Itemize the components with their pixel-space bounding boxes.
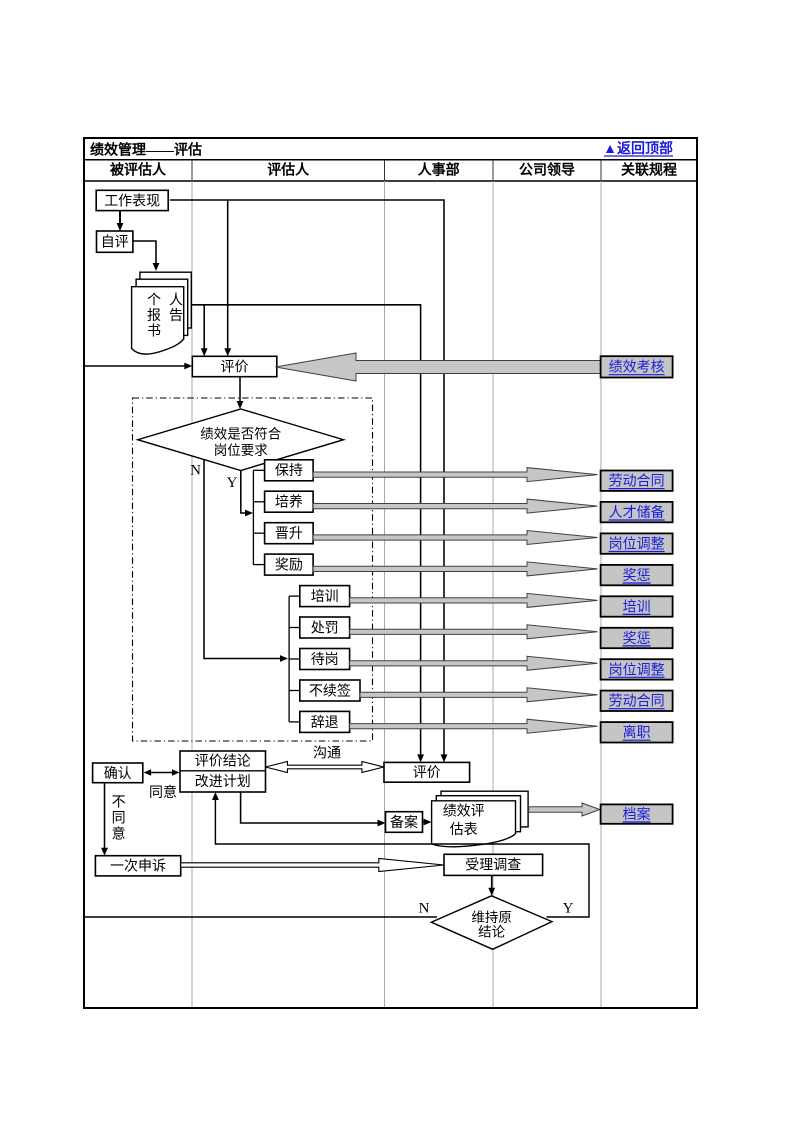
wire 工作表现→评价(人事部) bbox=[170, 200, 447, 762]
title 绩效管理——评估 bbox=[90, 142, 202, 159]
gray arrow row4→奖惩 bbox=[313, 562, 597, 576]
svg-text:同: 同 bbox=[112, 811, 126, 826]
svg-text:估表: 估表 bbox=[450, 822, 478, 838]
wire 确认→一次申诉 bbox=[101, 783, 108, 856]
link box 离职 (row9) bbox=[601, 722, 673, 742]
link 返回顶部 bbox=[603, 140, 673, 157]
hollow double arrow 评价结论↔评价 bbox=[265, 762, 384, 773]
process box 处罚 bbox=[300, 617, 350, 638]
process box 评价 (评估人) bbox=[192, 356, 276, 376]
title row bottom border bbox=[84, 159, 697, 161]
table outer border bbox=[84, 138, 697, 1008]
process box 确认 bbox=[93, 763, 143, 783]
svg-text:保持: 保持 bbox=[275, 463, 303, 479]
svg-text:培养: 培养 bbox=[275, 495, 303, 511]
svg-text:被评估人: 被评估人 bbox=[110, 162, 167, 179]
svg-text:同意: 同意 bbox=[149, 784, 177, 801]
link box 人才储备 (row2) bbox=[601, 502, 673, 522]
svg-text:报: 报 bbox=[147, 308, 161, 324]
svg-text:沟通: 沟通 bbox=[313, 746, 341, 762]
svg-text:辞退: 辞退 bbox=[311, 715, 339, 731]
double-headed arrow 确认↔评价结论 bbox=[144, 769, 180, 775]
svg-text:个: 个 bbox=[147, 292, 161, 308]
svg-text:奖励: 奖励 bbox=[275, 557, 303, 574]
label 同意 bbox=[149, 784, 177, 801]
gray arrow row6→奖惩 bbox=[350, 625, 598, 639]
process box 保持 bbox=[265, 460, 314, 481]
process box 培养 bbox=[265, 491, 314, 512]
gray arrow row2→人才储备 bbox=[313, 499, 597, 513]
process box 辞退 bbox=[300, 711, 350, 732]
decision diamond 绩效是否符合岗位要求 bbox=[138, 409, 344, 471]
svg-text:自评: 自评 bbox=[101, 235, 129, 251]
link box 岗位调整 (row7) bbox=[601, 659, 673, 679]
gray arrow 绩效评估表→档案 bbox=[529, 803, 600, 816]
svg-text:劳动合同: 劳动合同 bbox=[609, 474, 665, 490]
link box 劳动合同 (row8) bbox=[601, 691, 673, 711]
svg-text:备案: 备案 bbox=[390, 814, 418, 831]
link box 绩效考核 bbox=[601, 356, 673, 377]
svg-text:劳动合同: 劳动合同 bbox=[609, 694, 665, 710]
column header 评估人 bbox=[267, 162, 310, 179]
svg-text:人才储备: 人才储备 bbox=[609, 504, 665, 521]
svg-text:岗位调整: 岗位调整 bbox=[609, 537, 665, 553]
svg-text:不续签: 不续签 bbox=[309, 682, 351, 699]
gray arrow row3→岗位调整 bbox=[313, 531, 597, 545]
document stack 个人报告书 bbox=[132, 272, 192, 354]
svg-text:人: 人 bbox=[169, 292, 183, 308]
svg-text:岗位要求: 岗位要求 bbox=[214, 443, 268, 458]
decision diamond 维持原结论 bbox=[431, 896, 552, 950]
svg-text:▲返回顶部: ▲返回顶部 bbox=[603, 140, 673, 157]
label Y bbox=[227, 475, 238, 491]
column header 关联规程 bbox=[621, 162, 677, 179]
svg-text:档案: 档案 bbox=[623, 806, 651, 823]
link box 档案 bbox=[601, 804, 673, 823]
svg-text:改进计划: 改进计划 bbox=[195, 774, 251, 790]
column header 人事部 bbox=[418, 162, 460, 179]
process box 受理调查 bbox=[444, 854, 543, 875]
svg-text:确认: 确认 bbox=[104, 766, 132, 782]
svg-text:绩效评: 绩效评 bbox=[443, 804, 485, 820]
label 不同意 (vertical) bbox=[112, 795, 126, 842]
svg-text:受理调查: 受理调查 bbox=[465, 858, 521, 874]
link box 劳动合同 (row1) bbox=[601, 471, 673, 491]
header row bottom border bbox=[84, 180, 697, 182]
process box 晋升 bbox=[265, 523, 314, 544]
svg-text:书: 书 bbox=[147, 324, 161, 340]
link box 奖惩 (row6) bbox=[601, 628, 673, 648]
svg-text:岗位调整: 岗位调整 bbox=[609, 662, 665, 678]
wire 受理调查→维持原结论 bbox=[488, 875, 495, 895]
process box 备案 bbox=[386, 812, 423, 833]
link box 奖惩 (row4) bbox=[601, 565, 673, 585]
bracket connector group2 bbox=[289, 596, 300, 722]
column header 公司领导 bbox=[519, 162, 575, 179]
process box 自评 bbox=[97, 231, 133, 252]
svg-text:培训: 培训 bbox=[623, 599, 651, 615]
wire 工作表现→自评 bbox=[117, 211, 124, 231]
process box 评价 (人事部) bbox=[384, 762, 470, 782]
label 沟通 bbox=[313, 746, 341, 762]
svg-text:处罚: 处罚 bbox=[311, 620, 339, 636]
hollow arrow 一次申诉→受理调查 bbox=[181, 859, 444, 872]
svg-text:绩效考核: 绩效考核 bbox=[609, 360, 665, 376]
svg-text:待岗: 待岗 bbox=[311, 652, 339, 668]
wire branch 工作表现→评价(评估人) bbox=[224, 200, 231, 356]
svg-text:一次申诉: 一次申诉 bbox=[110, 859, 166, 875]
swimlane column separators bbox=[192, 181, 601, 1007]
column header 被评估人 bbox=[110, 162, 167, 179]
link box 岗位调整 (row3) bbox=[601, 533, 673, 553]
svg-text:评估人: 评估人 bbox=[267, 162, 310, 179]
link box 培训 (row5) bbox=[601, 596, 673, 616]
dash-dot boundary box bbox=[133, 398, 373, 741]
svg-text:不: 不 bbox=[112, 795, 126, 810]
label N bbox=[190, 463, 201, 479]
svg-text:评价: 评价 bbox=[413, 765, 441, 781]
svg-text:评价结论: 评价结论 bbox=[195, 754, 251, 770]
svg-text:工作表现: 工作表现 bbox=[104, 193, 160, 209]
wire 评价结论→备案 bbox=[241, 792, 386, 826]
svg-text:N: N bbox=[190, 463, 201, 479]
svg-text:公司领导: 公司领导 bbox=[519, 162, 575, 179]
wire Y→bracket bbox=[241, 471, 253, 517]
svg-text:培训: 培训 bbox=[311, 589, 339, 605]
gray arrow row7→岗位调整 bbox=[350, 656, 598, 670]
process box 不续签 bbox=[300, 680, 360, 701]
svg-text:关联规程: 关联规程 bbox=[621, 162, 677, 179]
wire branch 报告书→评价(评估人) bbox=[201, 305, 208, 357]
wire 备案→绩效评估表 bbox=[423, 819, 432, 826]
process box 工作表现 bbox=[96, 190, 168, 210]
svg-text:N: N bbox=[419, 901, 430, 917]
svg-text:离职: 离职 bbox=[623, 724, 651, 741]
wire Y 维持原结论→评价结论 bbox=[212, 792, 589, 917]
svg-text:奖惩: 奖惩 bbox=[623, 567, 651, 584]
svg-text:绩效是否符合: 绩效是否符合 bbox=[200, 426, 281, 441]
header row column separators bbox=[192, 160, 601, 181]
svg-text:Y: Y bbox=[563, 901, 574, 917]
gray arrow row5→培训 bbox=[350, 593, 598, 607]
svg-text:晋升: 晋升 bbox=[275, 526, 303, 542]
gray arrow row8→劳动合同 bbox=[360, 688, 598, 702]
wire N→bracket2 bbox=[204, 459, 288, 662]
process box 评价结论/改进计划 bbox=[180, 751, 266, 792]
wire N 维持原结论→左边界 bbox=[84, 916, 437, 918]
process box 待岗 bbox=[300, 649, 350, 670]
svg-text:意: 意 bbox=[112, 825, 126, 842]
bracket connector group1 bbox=[253, 470, 264, 564]
wire 评价→判断菱形 bbox=[237, 377, 244, 409]
svg-text:告: 告 bbox=[169, 308, 183, 324]
svg-text:Y: Y bbox=[227, 475, 238, 491]
wire 个人报告书→评价(人事部) bbox=[192, 305, 424, 763]
wire 自评→个人报告书 bbox=[133, 241, 159, 271]
thick gray arrow 绩效考核→评价 bbox=[276, 353, 602, 381]
svg-text:绩效管理——评估: 绩效管理——评估 bbox=[90, 142, 202, 159]
process box 奖励 bbox=[265, 554, 314, 575]
svg-text:人事部: 人事部 bbox=[418, 162, 460, 179]
label Y (bottom) bbox=[563, 901, 574, 917]
process box 培训 bbox=[300, 586, 350, 607]
wire N-loop return→评价 bbox=[84, 363, 192, 370]
label N (bottom) bbox=[419, 901, 430, 917]
svg-text:奖惩: 奖惩 bbox=[623, 630, 651, 647]
gray arrow row1→劳动合同 bbox=[313, 468, 597, 482]
gray arrow row9→离职 bbox=[350, 719, 598, 733]
document stack 绩效评估表 bbox=[432, 791, 528, 847]
svg-text:评价: 评价 bbox=[221, 359, 249, 375]
svg-text:结论: 结论 bbox=[478, 925, 505, 940]
process box 一次申诉 bbox=[95, 856, 180, 876]
svg-text:维持原: 维持原 bbox=[471, 910, 512, 925]
